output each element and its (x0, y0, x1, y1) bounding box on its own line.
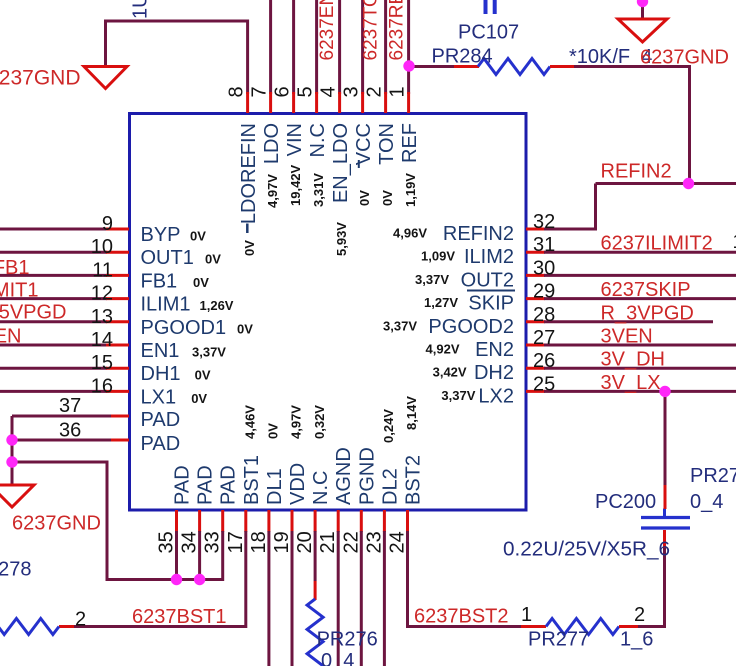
svg-text:0,24V: 0,24V (381, 409, 396, 443)
svg-text:22: 22 (340, 531, 362, 553)
pin stub 25 (red) (526, 390, 545, 393)
svg-text:6237GND: 6237GND (640, 47, 729, 69)
label PR278 (clipped) (0, 559, 32, 581)
value 1_6 of PR277 (620, 629, 653, 651)
svg-text:0V: 0V (237, 321, 253, 336)
pin number 10 (91, 236, 113, 258)
wire pin 11 horizontal (0, 274, 107, 277)
pin name LX1 (pin 16) (141, 386, 177, 408)
svg-text:3,37V: 3,37V (441, 388, 475, 403)
wire pin 5 vertical (315, 0, 318, 94)
svg-text:0V: 0V (191, 391, 207, 406)
junction dot pin37/36 (6, 434, 17, 445)
pin number 24 (rotated) (387, 531, 409, 553)
svg-text:19,42V: 19,42V (288, 164, 303, 206)
net label 6237ILIMIT2 (601, 233, 713, 255)
wire pin 6 vertical (292, 0, 295, 94)
junction dot pad 34 (194, 574, 205, 585)
svg-text:R_3VPGD: R_3VPGD (601, 302, 694, 324)
svg-text:35: 35 (156, 531, 178, 553)
pin stub 4 (red) (338, 92, 341, 113)
svg-text:BST1: BST1 (241, 455, 263, 505)
pin name BST2 (pin 24, rotated) (403, 455, 425, 505)
svg-text:PGOOD2: PGOOD2 (428, 316, 514, 338)
net label REFIN2 (601, 161, 672, 183)
svg-text:2: 2 (363, 86, 385, 97)
svg-text:0V: 0V (190, 229, 206, 244)
pin stub 33 (red) (221, 510, 224, 532)
pin name PAD (pin 33, rotated) (218, 465, 240, 505)
svg-text:ILIM2: ILIM2 (464, 246, 514, 268)
voltage 4,97V (pin 19, rotated) (289, 405, 304, 439)
svg-text:LX2: LX2 (478, 385, 514, 407)
pin name PAD (pin 34, rotated) (195, 465, 217, 505)
pin number 35 (rotated) (156, 531, 178, 553)
label PR277 (528, 629, 589, 651)
svg-text:9: 9 (102, 213, 113, 235)
voltage 0,32V (pin 20, rotated) (312, 405, 327, 439)
svg-text:1,19V: 1,19V (403, 173, 418, 207)
svg-text:PAD: PAD (195, 465, 217, 505)
pin name TON (pin 2, rotated) (376, 123, 398, 165)
capacitor PC107 plates (486, 0, 495, 14)
pin number 2 of PR278 (75, 609, 86, 631)
pin number 9 (102, 213, 113, 235)
svg-text:23: 23 (363, 531, 385, 553)
net label R_5VPGD (clipped) (0, 302, 67, 324)
wire PC200 to LX2 node (664, 391, 667, 509)
svg-text:2: 2 (634, 604, 645, 626)
net label 6237GND top-left (0, 67, 81, 90)
svg-text:1,26V: 1,26V (200, 298, 234, 313)
pin stub 12 (red) (106, 297, 129, 300)
wire pin 18 to bottom edge (267, 531, 270, 666)
svg-text:0_4: 0_4 (321, 650, 354, 666)
pin name VIN (pin 6, rotated) (284, 123, 306, 156)
pin stub 13 (red) (106, 320, 129, 323)
svg-text:4,96V: 4,96V (393, 226, 427, 241)
pin name EN2 (pin 27) (475, 339, 514, 361)
svg-text:N.C: N.C (310, 471, 332, 505)
pin name PGND (pin 22, rotated) (356, 447, 378, 505)
svg-text:6237ILIMIT1: 6237ILIMIT1 (0, 280, 39, 302)
pin name EN1 (pin 14) (141, 340, 180, 362)
svg-text:21: 21 (317, 531, 339, 553)
wire pin 14 horizontal (0, 344, 107, 347)
svg-text:13: 13 (91, 306, 113, 328)
net label 6237TON (rotated) (361, 0, 382, 61)
svg-text:4: 4 (317, 86, 339, 97)
value 0.22U/25V/X5R_6 (503, 539, 670, 561)
resistor PR284 (478, 59, 550, 75)
voltage 0V (pin 16) (191, 391, 207, 406)
svg-text:LDO: LDO (261, 123, 283, 164)
svg-text:PAD: PAD (141, 409, 181, 431)
pin number 23 (rotated) (363, 531, 385, 553)
voltage 0V (pin 2, rotated) (380, 190, 395, 206)
svg-text:4,97V: 4,97V (265, 174, 280, 208)
svg-text:0V: 0V (242, 240, 257, 256)
voltage 3,37V (pin 25) (441, 388, 475, 403)
svg-text:EN_LDO: EN_LDO (330, 123, 352, 203)
svg-text:LDOREFIN: LDOREFIN (238, 123, 260, 224)
wire PR284 to REFIN2 corner (550, 67, 690, 184)
wire pin 21 to bottom edge (337, 531, 340, 666)
pin number 1 of PR277 (521, 604, 532, 626)
svg-text:TON: TON (376, 123, 398, 165)
pin name PGOOD2 (pin 28) (428, 316, 514, 338)
wire pin 17 BST1 (59, 531, 246, 627)
svg-text:EN2: EN2 (475, 339, 514, 361)
voltage 1,19V (pin 1, rotated) (403, 173, 418, 207)
svg-text:6237GND: 6237GND (0, 67, 81, 90)
capacitor value 1U (rotated, clipped at top) (130, 0, 152, 19)
svg-text:PR276: PR276 (317, 629, 378, 651)
value 0_4 of PR279 (690, 491, 723, 513)
svg-text:30: 30 (533, 257, 555, 279)
svg-text:ILIM1: ILIM1 (141, 294, 191, 316)
svg-text:6237GND: 6237GND (12, 513, 101, 535)
wire pin 20 (314, 531, 317, 600)
svg-text:PAD: PAD (218, 465, 240, 505)
net label 6237BST1 (132, 606, 227, 628)
svg-text:32: 32 (533, 211, 555, 233)
pin number 33 (rotated) (202, 531, 224, 553)
pin name DL2 (pin 23, rotated) (379, 468, 401, 505)
pin stub 26 (red) (526, 367, 545, 370)
svg-text:11: 11 (92, 259, 113, 281)
junction dot REFIN2 (683, 178, 694, 189)
wire dot to ground (641, 0, 644, 20)
svg-text:PR284: PR284 (432, 46, 493, 68)
svg-text:29: 29 (533, 281, 555, 303)
voltage 1,26V (pin 12) (200, 298, 234, 313)
wire pin 12 horizontal (0, 297, 107, 300)
pin stub 34 (red) (198, 510, 201, 532)
wire pin 13 horizontal (0, 320, 107, 323)
pin name PGOOD1 (pin 13) (141, 317, 227, 339)
pin number 2 of PR277 (634, 604, 645, 626)
svg-text:OUT1: OUT1 (141, 247, 194, 269)
pin stub 7 (red) (269, 92, 272, 113)
pin number 34 (rotated) (179, 531, 201, 553)
wire pin 33 (221, 531, 224, 581)
wire pin 36 (12, 439, 129, 442)
svg-text:VDD: VDD (287, 463, 309, 505)
pin name FB1 (pin 11) (141, 270, 178, 292)
pin name PAD (pin 35, rotated) (172, 465, 194, 505)
overline for SKIP pin name (467, 290, 515, 292)
wire pin 9 horizontal (0, 228, 107, 231)
pin name OUT1 (pin 10) (141, 247, 194, 269)
net label 6237SKIP (601, 279, 691, 301)
wire pin 28 horizontal (544, 320, 713, 323)
pin stub 18 (red) (267, 510, 270, 532)
net label 6237REF (rotated) (387, 0, 408, 61)
junction dot pad 35 (171, 574, 182, 585)
pin stub 27 (red) (526, 344, 545, 347)
svg-text:15: 15 (91, 352, 113, 374)
resistor PR278 (clipped) (0, 619, 59, 635)
wire pad link (12, 462, 224, 580)
svg-text:34: 34 (179, 531, 201, 553)
svg-text:0_4: 0_4 (690, 491, 723, 513)
wire pin 25 horizontal (544, 390, 736, 393)
voltage 0V (pin 3, rotated) (357, 190, 372, 206)
pin name LDO (pin 7, rotated) (261, 123, 283, 164)
pin name REFIN2 (pin 32) (443, 223, 514, 245)
pin number 21 (rotated) (317, 531, 339, 553)
svg-text:4,92V: 4,92V (426, 342, 460, 357)
svg-text:3,37V: 3,37V (383, 318, 417, 333)
svg-text:3,42V: 3,42V (433, 365, 467, 380)
pin number 27 (533, 327, 555, 349)
pin number 3 (rotated) (340, 86, 362, 97)
wire pin 29 horizontal (544, 297, 736, 300)
pin name DL1 (pin 18, rotated) (264, 468, 286, 505)
wire pin 30 horizontal (544, 274, 736, 277)
svg-text:FB1: FB1 (141, 270, 178, 292)
op-amp U1 PU6237 IC body (130, 114, 527, 511)
svg-text:LX1: LX1 (141, 386, 177, 408)
pin number 19 (rotated) (271, 531, 293, 553)
voltage 4,96V (pin 32) (393, 226, 427, 241)
svg-text:3VEN: 3VEN (601, 326, 653, 348)
svg-text:0V: 0V (380, 190, 395, 206)
wire pin 3 vertical (361, 0, 364, 94)
svg-text:N.C: N.C (307, 123, 329, 157)
svg-text:6237BST2: 6237BST2 (414, 606, 509, 628)
pin name ILIM1 (pin 12) (141, 294, 191, 316)
svg-text:4,46V: 4,46V (243, 405, 258, 439)
label PC200 (595, 491, 656, 513)
ground bottom-left (0, 485, 34, 507)
pin number 18 (rotated) (248, 531, 270, 553)
svg-text:0V: 0V (205, 252, 221, 267)
svg-text:19: 19 (271, 531, 293, 553)
svg-text:1: 1 (521, 604, 532, 626)
node REF junction dot (403, 60, 414, 71)
pin number 37 (59, 395, 81, 417)
voltage 0V (pin 8, rotated) (242, 240, 257, 256)
svg-text:27: 27 (533, 327, 555, 349)
svg-text:0,32V: 0,32V (312, 405, 327, 439)
pin number 36 (59, 420, 81, 442)
wire pin 24 BST2 (408, 531, 547, 627)
pin name VDD (pin 19, rotated) (287, 463, 309, 505)
pin stub 1 (red) (407, 92, 410, 113)
svg-text:2: 2 (75, 609, 86, 631)
voltage 0V (pin 11) (193, 275, 209, 290)
svg-text:AGND: AGND (333, 447, 355, 505)
pin stub 17 (red) (244, 510, 247, 532)
net label 6237ILIMIT1 (clipped) (0, 280, 39, 302)
svg-text:16: 16 (91, 375, 113, 397)
svg-text:PGOOD1: PGOOD1 (141, 317, 227, 339)
svg-text:1,09V: 1,09V (421, 249, 455, 264)
voltage 3,37V (pin 14) (192, 345, 226, 360)
svg-text:14: 14 (91, 329, 113, 351)
svg-text:33: 33 (202, 531, 224, 553)
svg-text:DH1: DH1 (141, 363, 181, 385)
svg-text:6237TON: 6237TON (361, 0, 382, 61)
pin stub 20 (red) (314, 510, 317, 532)
svg-text:28: 28 (533, 304, 555, 326)
resistor PR277 (546, 619, 619, 635)
pin name REF (pin 1, rotated) (399, 123, 421, 163)
voltage 3,31V (pin 5, rotated) (311, 173, 326, 207)
pin name OUT2 (pin 30) (461, 269, 514, 291)
svg-text:BST2: BST2 (403, 455, 425, 505)
wire pin 32 to REFIN2 (544, 184, 596, 230)
svg-text:EN1: EN1 (141, 340, 180, 362)
svg-text:6237FB1: 6237FB1 (0, 257, 30, 279)
svg-text:24: 24 (387, 531, 409, 553)
net label 3VEN (601, 326, 653, 348)
wire pin 10 horizontal (0, 251, 107, 254)
svg-text:6237ILIMIT2: 6237ILIMIT2 (601, 233, 713, 255)
svg-text:3V_LX: 3V_LX (601, 372, 661, 394)
label PC107 (458, 22, 519, 44)
wire pin 34 (198, 531, 201, 580)
ground top-left (84, 67, 127, 89)
svg-text:PR278: PR278 (0, 559, 32, 581)
voltage 4,92V (pin 27) (426, 342, 460, 357)
pin name SKIP (pin 29) (468, 293, 514, 315)
pin number 30 (533, 257, 555, 279)
svg-text:6237BST1: 6237BST1 (132, 606, 227, 628)
pin stub 22 (red) (360, 510, 363, 532)
net label 6237EN_LDO (rotated) (317, 0, 338, 61)
pin name BYP (pin 9) (141, 224, 181, 246)
value *10K/F_4 (569, 46, 652, 68)
pin number 22 (rotated) (340, 531, 362, 553)
svg-text:3,37V: 3,37V (192, 345, 226, 360)
svg-text:VIN: VIN (284, 123, 306, 156)
svg-text:DL1: DL1 (264, 468, 286, 505)
voltage 0V (pin 13) (237, 321, 253, 336)
svg-text:1: 1 (733, 231, 736, 253)
pin stub 31 (red) (526, 251, 545, 254)
pin stub 5 (red) (315, 92, 318, 113)
svg-text:0V: 0V (266, 423, 281, 439)
junction dot above top-right ground (637, 0, 648, 7)
wire PR277 to PC200 (619, 530, 665, 627)
pin stub 21 (red) (337, 510, 340, 532)
pin number 8 (rotated) (225, 86, 247, 97)
svg-text:8: 8 (225, 86, 247, 97)
pin number 26 (533, 350, 555, 372)
svg-text:17: 17 (225, 531, 247, 553)
pin stub 9 (red) (106, 228, 129, 231)
voltage 3,37V (pin 28) (383, 318, 417, 333)
wire pin 37 (12, 416, 129, 486)
svg-text:5: 5 (294, 86, 316, 97)
pin stub 3 (red) (361, 92, 364, 113)
svg-text:BYP: BYP (141, 224, 181, 246)
voltage 1,09V (pin 31) (421, 249, 455, 264)
pin number 4 (rotated) (317, 86, 339, 97)
pin name DH2 (pin 26) (474, 362, 514, 384)
wire pin 7 vertical (269, 0, 272, 94)
svg-text:PC200: PC200 (595, 491, 656, 513)
svg-text:OUT2: OUT2 (461, 269, 514, 291)
pin stub 16 (red) (106, 390, 129, 393)
wire pin 26 horizontal (544, 367, 736, 370)
svg-text:3,31V: 3,31V (311, 173, 326, 207)
wire REFIN2 horizontal (596, 182, 736, 185)
junction dot LX2 node (659, 386, 670, 397)
svg-text:PAD: PAD (172, 465, 194, 505)
svg-text:8,14V: 8,14V (404, 396, 419, 430)
pin stub 35 (red) (175, 510, 178, 532)
svg-text:25: 25 (533, 373, 555, 395)
pin stub 23 (red) (383, 510, 386, 532)
label PR276 (317, 629, 378, 651)
voltage 0V (pin 18, rotated) (266, 423, 281, 439)
pin name ILIM2 (pin 31) (464, 246, 514, 268)
svg-text:6: 6 (271, 86, 293, 97)
voltage 4,97V (pin 7, rotated) (265, 174, 280, 208)
net label 6237BST2 (414, 606, 509, 628)
svg-text:0.22U/25V/X5R_6: 0.22U/25V/X5R_6 (503, 539, 670, 561)
pin stub 15 (red) (106, 367, 129, 370)
pin stub 28 (red) (526, 320, 545, 323)
svg-text:5,93V: 5,93V (334, 222, 349, 256)
pin stub 11 (red) (106, 274, 129, 277)
tick on VCC (358, 160, 360, 168)
pin number 5 (rotated) (294, 86, 316, 97)
pin number 25 (533, 373, 555, 395)
svg-text:0V: 0V (193, 275, 209, 290)
pin name N.C (pin 5, rotated) (307, 123, 329, 157)
net label 3V_DH (601, 349, 665, 371)
svg-text:12: 12 (91, 283, 113, 305)
voltage 19,42V (pin 6, rotated) (288, 164, 303, 206)
svg-text:SKIP: SKIP (468, 293, 514, 315)
pin number 32 (533, 211, 555, 233)
svg-text:PGND: PGND (356, 447, 378, 505)
svg-text:6237REF: 6237REF (387, 0, 408, 61)
svg-text:1,27V: 1,27V (424, 295, 458, 310)
voltage 0V (pin 15) (195, 368, 211, 383)
overbar tick on LDOREFIN (246, 224, 249, 234)
svg-text:0V: 0V (195, 368, 211, 383)
pin number 2 (rotated) (363, 86, 385, 97)
svg-text:3,37V: 3,37V (415, 272, 449, 287)
wire REF to PR284 (409, 65, 479, 68)
pin number 6 (rotated) (271, 86, 293, 97)
svg-text:REFIN2: REFIN2 (601, 161, 672, 183)
svg-text:DL2: DL2 (379, 468, 401, 505)
net label 6237GND bottom-left (12, 513, 101, 535)
wire pin 4 vertical (338, 0, 341, 94)
svg-text:7: 7 (248, 86, 270, 97)
pin name VCC (pin 3, rotated) (353, 123, 375, 165)
svg-text:PR279: PR279 (690, 465, 736, 487)
svg-text:20: 20 (294, 531, 316, 553)
wire pin 19 to bottom edge (291, 531, 294, 666)
svg-text:18: 18 (248, 531, 270, 553)
junction dot pin36/pad-link (6, 456, 17, 467)
wire pin 35 (175, 531, 178, 580)
pin number 11 (92, 259, 113, 281)
svg-text:3V_DH: 3V_DH (601, 349, 665, 371)
label PR279 (clipped at right) (690, 465, 736, 487)
capacitor PC200 plates (641, 509, 690, 529)
pin stub 10 (red) (106, 251, 129, 254)
svg-text:36: 36 (59, 420, 81, 442)
